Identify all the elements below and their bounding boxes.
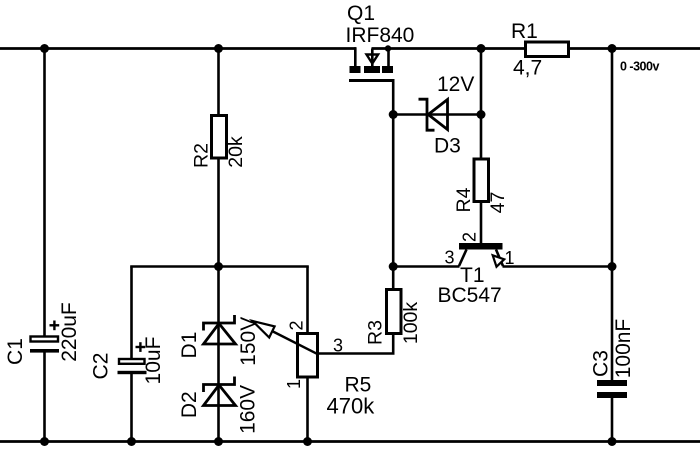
node gate-R3 junction [389,262,398,271]
svg-text:3: 3 [445,248,455,268]
svg-text:4,7: 4,7 [513,57,542,80]
resistor R2 [191,49,248,267]
node D3-R4 junction [477,110,486,119]
svg-text:BC547: BC547 [438,284,502,307]
svg-text:R4: R4 [453,187,475,212]
capacitor C2 [90,267,166,442]
node gate junction [389,110,398,119]
wire gate node vertical [392,115,395,268]
transistor Q1 mosfet [346,2,415,115]
svg-text:12V: 12V [437,73,474,96]
wire gate junction to D3 [393,113,481,116]
node bottom C1 junction [40,437,49,446]
resistor R4 [453,159,509,244]
zener D2 [178,377,260,434]
svg-text:20k: 20k [225,136,247,168]
svg-text:D2: D2 [178,391,201,418]
resistor R3 [365,267,423,354]
svg-text:IRF840: IRF840 [346,24,415,47]
svg-text:2: 2 [460,232,480,242]
wire gate-divider horizontal [130,265,309,268]
svg-text:470k: 470k [327,394,376,419]
wire rail to R4 [480,49,483,160]
svg-text:R2: R2 [191,143,213,168]
potentiometer R5 [253,267,376,442]
wire top rail right [372,47,700,50]
transistor T1 [438,232,515,307]
svg-text:100k: 100k [400,302,422,345]
node rail-D3 branch junction [477,44,486,53]
wire T1 base to gate node [393,265,459,268]
svg-text:D1: D1 [178,332,201,359]
svg-text:1: 1 [284,379,304,389]
resistor R1 [511,20,569,80]
svg-text:0 -300v: 0 -300v [620,60,659,74]
wire R2 to D1 [217,267,220,442]
svg-text:160V: 160V [237,385,260,434]
node rail-source junction [385,45,391,51]
svg-text:100nF: 100nF [612,319,635,379]
svg-text:R3: R3 [365,320,387,345]
svg-text:C1: C1 [4,338,27,365]
svg-text:220uF: 220uF [58,302,81,362]
node output rail junction [608,44,617,53]
wire R3 to R5 wiper [318,352,395,355]
node rail-C1 junction [40,44,49,53]
node bottom D2 junction [214,437,223,446]
node rail-R2 junction [214,44,223,53]
capacitor C3 [590,319,636,442]
svg-text:10uF: 10uF [142,337,165,385]
wire top rail left [0,47,356,50]
svg-text:C2: C2 [90,353,113,380]
svg-text:R1: R1 [511,20,538,43]
wire bottom rail [0,440,700,443]
svg-text:47: 47 [487,192,509,214]
svg-text:2: 2 [287,320,307,330]
capacitor C1 [4,49,81,442]
node bottom C3 junction [608,437,617,446]
zener D1 [178,315,260,366]
node bottom R5 junction [303,437,312,446]
node bottom C2 junction [127,437,136,446]
svg-text:1: 1 [505,248,515,268]
node output-emitter junction [608,262,617,271]
zener D3 [419,73,475,158]
svg-text:Q1: Q1 [347,2,375,25]
wire output rail vertical [611,49,614,381]
svg-text:C3: C3 [590,350,613,377]
node divider junction [214,262,223,271]
svg-text:3: 3 [333,336,343,356]
svg-text:D3: D3 [434,135,461,158]
wire T1 emitter to output [503,265,613,268]
